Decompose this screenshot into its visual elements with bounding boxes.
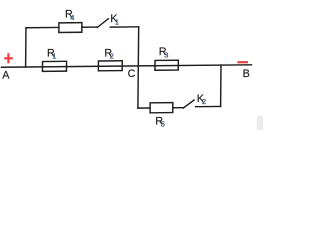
svg-text:1: 1	[52, 52, 56, 61]
label R5	[155, 116, 165, 129]
svg-text:B: B	[243, 68, 250, 80]
resistor R5	[150, 103, 173, 113]
terminal minus	[237, 61, 248, 63]
resistor R1	[42, 61, 66, 71]
wire K2 right contact	[196, 105, 221, 107]
svg-text:5: 5	[161, 119, 165, 128]
label R2	[104, 48, 113, 61]
label K2	[197, 93, 206, 106]
svg-text:1: 1	[115, 18, 119, 27]
wire K1 right contact	[110, 26, 138, 28]
wire right leg of bottom branch	[220, 65, 222, 106]
svg-text:2: 2	[110, 52, 114, 61]
terminal plus	[4, 53, 13, 63]
switch K2 blade	[183, 100, 194, 108]
resistor R2	[98, 61, 122, 71]
switch K1 blade	[97, 19, 108, 28]
label R1	[47, 48, 56, 61]
wire main A to B	[2, 65, 252, 67]
svg-text:A: A	[2, 70, 10, 82]
wire node C vertical	[137, 27, 140, 108]
label R3	[159, 46, 169, 59]
wire left leg of top branch	[25, 28, 27, 67]
svg-text:3: 3	[164, 51, 168, 60]
wire top branch to R4	[26, 26, 59, 28]
watermark corner	[257, 116, 265, 133]
svg-text:2: 2	[202, 97, 206, 106]
label K1	[110, 13, 119, 26]
resistor R3	[155, 60, 178, 70]
wire R5 to K2 contact	[173, 107, 184, 109]
wire R4 to K1 contact	[82, 26, 97, 28]
wire node C to R5	[138, 107, 150, 109]
svg-text:C: C	[128, 68, 136, 80]
resistor R4	[59, 23, 82, 33]
label R4	[65, 9, 74, 23]
svg-text:4: 4	[70, 13, 74, 22]
